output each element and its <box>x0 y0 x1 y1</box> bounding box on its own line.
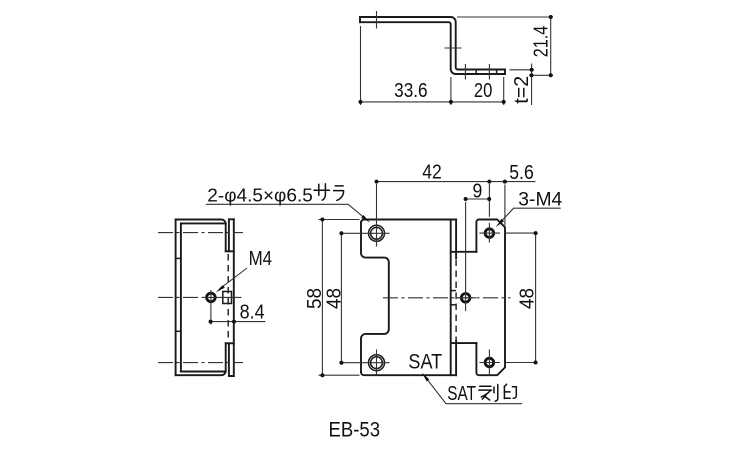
main face (edge view) inner line <box>180 223 182 371</box>
top web inner line <box>181 222 226 224</box>
dim line 33.6 / 20 <box>361 101 504 103</box>
svg-text:EB-53: EB-53 <box>329 418 381 441</box>
svg-text:t=2: t=2 <box>511 76 533 104</box>
bottom web outer line with bend <box>176 343 226 375</box>
step line lower <box>451 342 476 344</box>
M4 hole top <box>485 229 494 238</box>
main plate left edge with notch <box>361 223 389 373</box>
bend tangent line <box>450 220 452 376</box>
svg-text:20: 20 <box>474 80 493 102</box>
svg-text:M4: M4 <box>249 248 273 270</box>
leader M4 <box>220 268 248 289</box>
arrow 3-M4 <box>496 219 504 227</box>
svg-text:3-M4: 3-M4 <box>518 189 562 210</box>
flange top tab <box>229 219 234 251</box>
hole centre tick on bottom strip (end holes) <box>488 64 490 80</box>
dim 8.4 line <box>211 321 266 323</box>
centre line middle <box>158 296 203 298</box>
countersunk hole top inner <box>371 227 383 239</box>
dim line 48 left <box>341 233 363 362</box>
dim line 9 <box>466 198 490 200</box>
step cap at top tab <box>226 250 234 252</box>
kokuin kanji <box>479 384 516 401</box>
dim line 42 <box>377 181 490 183</box>
web far edge solid bottom <box>455 341 457 375</box>
main plate bottom edge <box>361 372 456 375</box>
M4 middle crosshair <box>456 202 477 311</box>
svg-text:8.4: 8.4 <box>240 301 265 323</box>
countersunk bottom crosshair <box>341 350 389 376</box>
dim line t=2 <box>531 64 533 106</box>
bottom web inner line <box>181 371 226 373</box>
web far edge solid top <box>455 220 457 259</box>
M4 hole crosshair <box>203 290 241 325</box>
arrow countersunk <box>361 215 370 222</box>
dim line 5.6 <box>489 182 535 226</box>
horizontal centre line <box>383 297 511 299</box>
countersunk hole top outer <box>369 225 385 241</box>
step line upper <box>451 251 476 253</box>
svg-text:21.4: 21.4 <box>531 26 553 58</box>
web far edge hidden middle <box>455 260 457 341</box>
svg-text:48: 48 <box>516 288 538 309</box>
hole centre tick on top strip <box>376 11 378 29</box>
flange tab outline <box>476 220 505 376</box>
arrow SAT kokuin <box>422 373 429 382</box>
M4 bottom crosshair <box>479 350 535 376</box>
middle hole tab rectangle <box>223 292 232 304</box>
top web outer line with bend <box>176 220 226 252</box>
svg-text:SAT: SAT <box>447 383 476 405</box>
flange outer surface full height <box>233 219 235 376</box>
hidden bend line (dashed) <box>227 254 229 341</box>
Z profile outer surface <box>360 17 505 70</box>
dim 58 extensions <box>319 220 360 376</box>
countersunk top crosshair <box>364 184 390 247</box>
notch edge tick lower <box>176 330 181 332</box>
countersunk hole bottom outer <box>369 355 385 371</box>
leader 3-M4 <box>500 208 561 223</box>
hole edge mark 1 <box>475 70 477 75</box>
countersunk hole bottom inner <box>371 357 383 369</box>
M4 tapped hole in web <box>207 293 216 302</box>
svg-text:9: 9 <box>473 181 483 203</box>
middle tab mark lower <box>451 304 456 306</box>
svg-text:48: 48 <box>323 288 345 309</box>
svg-text:42: 42 <box>422 162 442 184</box>
dim line 21.4 <box>550 17 552 75</box>
label SAT kokuin leader <box>425 376 523 404</box>
main plate top edge <box>361 220 456 223</box>
centre line top holes <box>158 232 243 234</box>
dim 21.4 extension lines <box>457 17 553 75</box>
step cap at bottom tab <box>226 342 234 344</box>
label sara (katakana) <box>314 184 344 201</box>
M4 hole middle <box>461 294 470 303</box>
middle tab mark upper <box>451 290 456 292</box>
M4 hole bottom <box>485 358 494 367</box>
leader countersunk <box>206 204 367 220</box>
hole edge mark 2 <box>496 70 498 75</box>
dim 33.6 extension lines <box>361 26 504 105</box>
Z profile end caps <box>360 17 505 74</box>
notch edge tick upper <box>176 257 181 259</box>
dim t=2 extension line <box>510 69 535 71</box>
svg-text:33.6: 33.6 <box>394 80 428 102</box>
svg-text:5.6: 5.6 <box>509 162 534 184</box>
Z profile inner surface <box>360 22 505 74</box>
hole centre tick on web <box>445 47 462 49</box>
svg-text:SAT: SAT <box>408 350 442 373</box>
flange bottom tab <box>229 343 234 376</box>
M4 top crosshair <box>479 184 535 243</box>
hole centre tick on bottom strip (mid hole) <box>464 64 466 80</box>
main face (edge view) outer line <box>175 220 177 376</box>
dim line 58 <box>321 220 323 376</box>
centre line bottom holes <box>158 362 243 364</box>
dim line 48 right <box>535 233 537 362</box>
arrow M4 <box>216 285 225 292</box>
svg-text:2-φ4.5×φ6.5: 2-φ4.5×φ6.5 <box>207 185 312 205</box>
